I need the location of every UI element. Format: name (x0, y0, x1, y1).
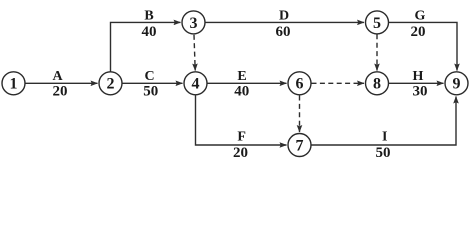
dummy wire 6->7 (dashed) (299, 96, 301, 133)
wire B: 2 up then right to 3 (111, 22, 181, 71)
svg-text:6: 6 (296, 76, 304, 93)
svg-text:60: 60 (276, 24, 291, 40)
node 2 (99, 72, 122, 95)
wire A: arrow 1->2 (26, 82, 98, 84)
svg-text:7: 7 (296, 137, 304, 154)
svg-text:C: C (144, 69, 154, 84)
svg-text:A: A (52, 69, 63, 84)
node 1 (2, 72, 25, 95)
node 8 (366, 72, 389, 95)
svg-text:3: 3 (190, 15, 198, 32)
wire G: 5 right then down to 9 (389, 22, 457, 70)
svg-text:2: 2 (107, 76, 115, 93)
node 7 (288, 134, 311, 157)
node 3 (182, 11, 205, 34)
wire E: arrow 4->6 (208, 82, 287, 84)
svg-text:1: 1 (10, 76, 18, 93)
wire D: arrow 3->5 (206, 21, 365, 23)
svg-text:G: G (415, 9, 426, 24)
svg-text:8: 8 (373, 76, 381, 93)
svg-text:5: 5 (373, 15, 381, 32)
node 9 (445, 72, 468, 95)
svg-text:50: 50 (376, 145, 391, 161)
svg-text:20: 20 (53, 84, 68, 100)
svg-text:I: I (382, 129, 387, 144)
dummy wire 6->8 (dashed) (312, 82, 365, 84)
svg-text:E: E (237, 69, 246, 84)
dummy wire 5->8 (dashed) (376, 34, 378, 70)
svg-text:20: 20 (411, 24, 426, 40)
wire H: arrow 8->9 (389, 82, 444, 84)
wire I: 7 right then up to 9 (312, 97, 457, 146)
wire C: arrow 2->4 (123, 82, 183, 84)
svg-text:40: 40 (142, 24, 157, 40)
svg-text:50: 50 (143, 84, 158, 100)
svg-text:D: D (279, 9, 289, 24)
svg-text:20: 20 (233, 145, 248, 161)
dummy wire 3->4 (dashed) (194, 35, 195, 71)
node 4 (184, 72, 207, 95)
svg-text:40: 40 (234, 84, 249, 100)
svg-text:B: B (144, 9, 153, 24)
node 6 (288, 72, 311, 95)
svg-text:F: F (237, 129, 246, 144)
svg-text:4: 4 (192, 76, 200, 93)
node 5 (366, 11, 389, 34)
svg-text:30: 30 (413, 84, 428, 100)
wire F: 4 down then right to 7 (196, 96, 287, 146)
svg-text:H: H (413, 69, 424, 84)
svg-text:9: 9 (453, 76, 461, 93)
